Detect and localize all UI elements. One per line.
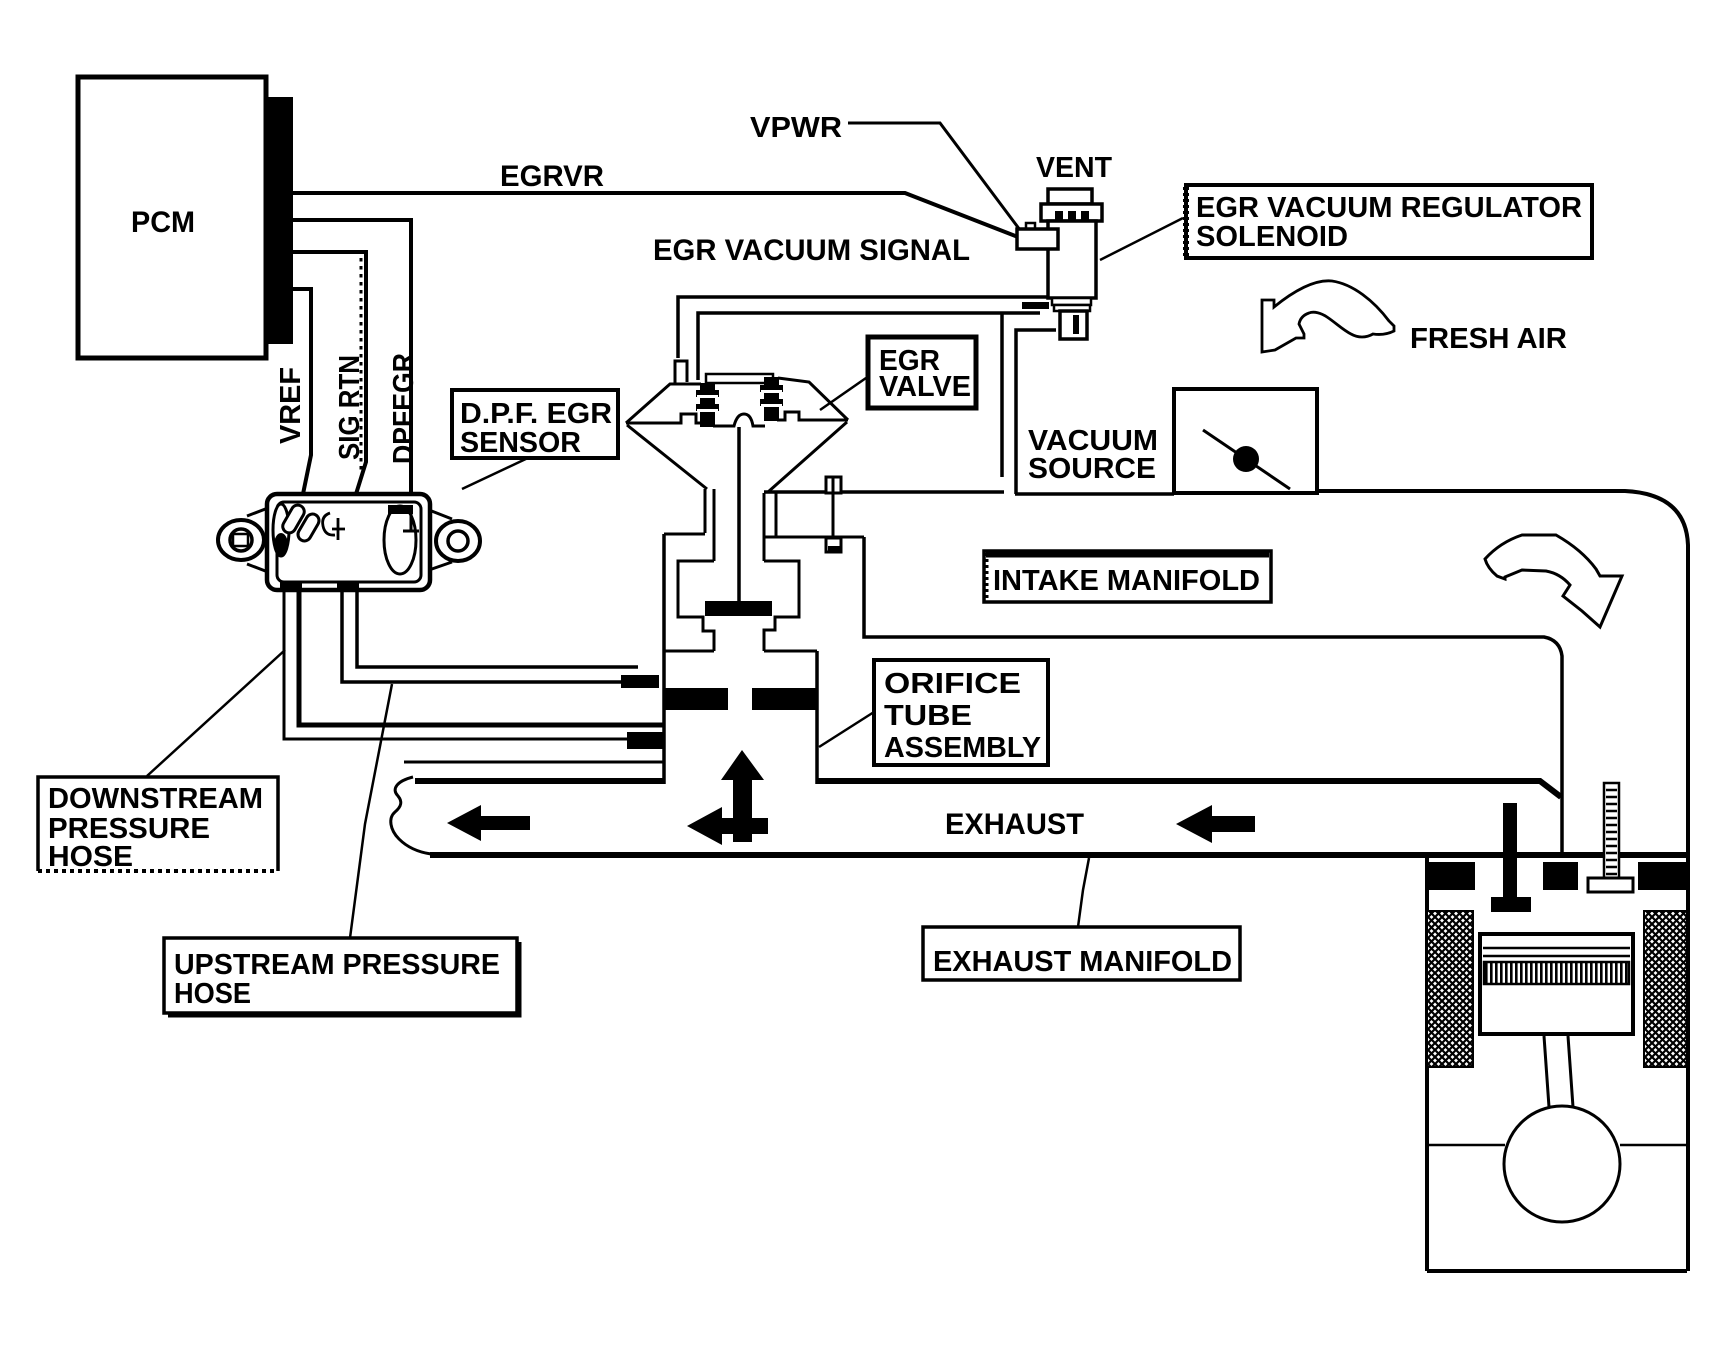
cylinder wall right (crosshatch) [1644,911,1687,1067]
svg-text:VREF: VREF [275,367,307,444]
EGR valve vacuum stub [675,361,687,384]
wire EGRVR [293,193,1018,237]
EGR valve right shoulder with notch [777,412,848,420]
EGR valve lower-left diagonal [627,425,707,489]
orifice assembly right shelf [764,650,817,653]
solenoid body [1048,221,1096,298]
leader EGR VALVE [820,378,866,410]
EXHAUST MANIFOLD label box [923,927,1240,980]
downstream pressure hose (left tube) [299,589,663,725]
orifice plate left black bar [663,688,728,710]
sensor hose ports [280,582,302,590]
vacuum hose solenoid to manifold right line [1016,330,1056,494]
throttle shaft dot [1233,446,1259,472]
EGR valve seat line with bump [713,414,765,426]
svg-text:SENSOR: SENSOR [460,427,581,459]
ORIFICE TUBE ASSEMBLY label box [874,660,1048,765]
orifice assembly right inner steps [764,561,799,651]
sensor internal tilted slot 1 [280,503,306,535]
exhaust pipe bottom wall [430,852,1688,858]
svg-text:FRESH AIR: FRESH AIR [1410,323,1567,355]
leader D.P.F. EGR SENSOR [462,457,530,489]
piston crown [1480,934,1633,1034]
intake manifold vacuum tap fitting upper stub [826,477,841,493]
svg-text:EGR VACUUM REGULATOR: EGR VACUUM REGULATOR [1196,192,1582,224]
intake airflow curved arrow [1485,535,1622,627]
svg-text:EGRVR: EGRVR [500,160,604,193]
svg-text:EXHAUST: EXHAUST [945,808,1084,841]
exhaust valve (black) [1503,803,1517,897]
sensor DPFEGR pin [403,514,419,531]
exhaust flow arrow up (into orifice) [721,750,764,842]
solenoid bottom flange [1052,298,1091,305]
svg-text:TUBE: TUBE [884,700,972,732]
PCM box [78,77,266,358]
INTAKE MANIFOLD label box [984,551,1271,602]
leader EXHAUST MANIFOLD [1078,858,1089,927]
exhaust pipe upper thin line [404,761,664,764]
svg-text:DOWNSTREAM: DOWNSTREAM [48,783,263,815]
exhaust pipe top wall left segment [415,778,664,784]
EGR valve top cap [706,374,773,383]
fresh air curved arrow [1262,281,1394,352]
orifice tube assembly left channel [705,489,714,561]
exhaust flow arrow right [1176,805,1255,843]
svg-text:SOLENOID: SOLENOID [1196,221,1348,253]
vacuum hose solenoid to manifold left line [1000,313,1004,477]
exhaust pipe open left end curl [391,777,431,854]
exhaust pipe top wall right segment [817,781,1561,797]
engine block left wall [1425,855,1429,1271]
EGR valve upper-right diagonal [778,378,848,420]
upstream pressure hose (right tube) [357,589,638,667]
svg-text:VENT: VENT [1036,152,1112,184]
wire DPFEGR [293,220,411,528]
orifice assembly left outer wall [662,534,666,784]
DPF EGR sensor body outer [267,494,430,590]
sensor internal centre contact [323,513,345,540]
lower hose black connector [627,732,665,749]
cylinder head black port blocks [1427,862,1475,890]
svg-text:PCM: PCM [131,206,195,239]
sensor internal left oval [273,504,289,556]
piston ring band [1484,962,1629,984]
vacuum tap lower stub [826,538,841,552]
leader UPSTREAM [350,684,392,938]
EGR valve pintle black bar [705,601,772,616]
EGR valve stem [737,427,741,602]
DOWNSTREAM PRESSURE HOSE label box (dotted bottom) [38,777,278,871]
svg-text:UPSTREAM PRESSURE: UPSTREAM PRESSURE [174,949,500,981]
vacuum hose solenoid to EGR valve lower line [698,313,1040,380]
svg-text:SOURCE: SOURCE [1028,453,1156,485]
vacuum tap stem [832,494,835,538]
sensor internal tilted slot 2 [296,512,322,544]
leader DOWNSTREAM [147,650,285,776]
solenoid nozzle [1060,311,1087,339]
EGR valve left shoulder with notch [626,414,702,423]
upper hose black connector [621,675,659,688]
throttle plate [1203,430,1290,489]
svg-text:SIG RTN: SIG RTN [334,355,366,460]
intake valve head [1588,878,1633,892]
wire SIG RTN [293,252,366,510]
wire SIG RTN shield dotted [360,258,363,470]
svg-text:INTAKE MANIFOLD: INTAKE MANIFOLD [993,565,1260,597]
intake plenum top boundary right of throttle [1317,491,1688,855]
svg-text:EXHAUST MANIFOLD: EXHAUST MANIFOLD [933,946,1232,978]
DPF EGR sensor right ear bracket [429,510,452,570]
sensor internal right oval [384,506,416,574]
svg-text:VPWR: VPWR [750,112,842,144]
vacuum hose solenoid to EGR valve upper line [678,297,1052,358]
orifice tube assembly right channel [764,493,776,561]
svg-text:HOSE: HOSE [48,841,133,873]
svg-text:ASSEMBLY: ASSEMBLY [884,732,1041,764]
DPF EGR sensor left ear [218,520,264,560]
EGR VACUUM REGULATOR SOLENOID label box [1186,185,1592,258]
DPF EGR sensor right ear [436,521,480,561]
EGR valve lower-right diagonal [768,422,847,492]
leader ORIFICE TUBE ASSEMBLY [819,712,874,747]
exhaust flow arrow mid-left [687,807,768,845]
DPF EGR sensor body inner [277,502,421,582]
intake valve stem [1604,783,1619,878]
orifice assembly left inner steps [678,561,714,651]
throttle body box [1174,389,1317,493]
cylinder wall left (crosshatch) [1427,911,1473,1067]
svg-text:DPFEGR: DPFEGR [388,353,420,464]
svg-text:D.P.F. EGR: D.P.F. EGR [460,398,612,430]
UPSTREAM PRESSURE HOSE label box [164,938,517,1013]
orifice assembly right shoulder [764,536,864,539]
crankshaft circle [1504,1106,1620,1222]
solenoid side black port [1022,302,1049,309]
DPF EGR sensor left ear bracket [247,508,268,572]
svg-text:VALVE: VALVE [879,371,971,403]
EGR vacuum regulator solenoid top cap [1048,189,1092,204]
EGR valve left spring [700,383,715,427]
orifice assembly left shoulder [664,533,705,536]
orifice assembly right outer wall [815,651,819,784]
engine block right wall [1686,855,1690,1271]
wire VREF [293,289,311,508]
exhaust flow arrow left [447,805,530,841]
PCM connector black bar [266,97,293,344]
leader EGR VACUUM REGULATOR SOLENOID [1100,218,1183,260]
EGR valve upper-left diagonal [626,384,701,423]
orifice plate right black bar [752,688,818,710]
solenoid connector tab [1026,223,1035,230]
intake plenum top boundary [764,492,1174,494]
svg-text:HOSE: HOSE [174,978,251,1010]
crankcase split line [1427,1144,1687,1147]
EGR valve right spring [764,377,779,421]
wire VPWR leader [848,123,1020,230]
D.P.F. EGR SENSOR label box [452,390,618,458]
svg-text:ORIFICE: ORIFICE [884,668,1021,700]
engine block bottom [1427,1269,1687,1273]
EGR VALVE label box [868,337,976,408]
connecting rod [1544,1036,1573,1107]
intake runner inner boundary [864,537,1562,855]
svg-text:EGR VACUUM SIGNAL: EGR VACUUM SIGNAL [653,234,970,267]
solenoid vent collar [1041,204,1102,221]
orifice assembly left shelf [664,650,714,653]
